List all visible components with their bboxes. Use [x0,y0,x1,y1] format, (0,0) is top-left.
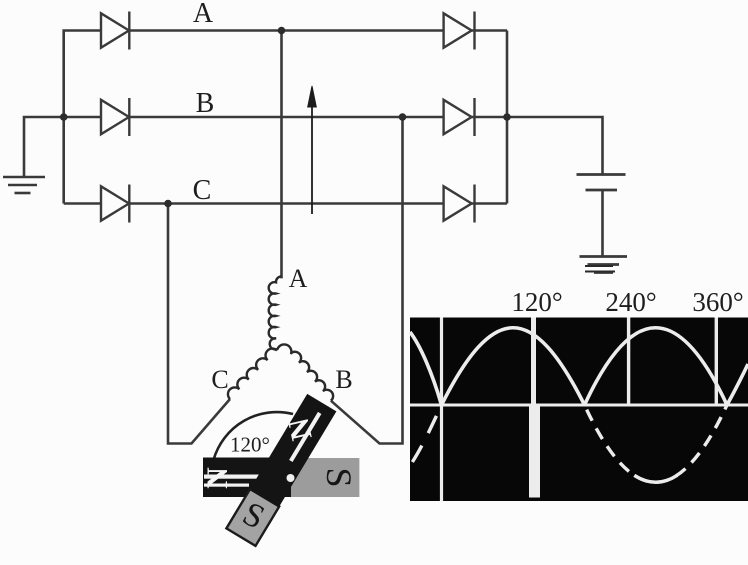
scope grid vertical 360 deg [715,318,718,407]
wire ground stub left [24,117,64,176]
svg-text:B: B [196,88,215,119]
svg-text:B: B [335,365,352,394]
wire phase A horizontal [64,31,507,204]
capacitor C1 [577,175,626,191]
svg-text:360°: 360° [692,287,743,317]
oscilloscope screen [410,318,748,502]
scope grid vertical 240 deg [627,318,630,407]
svg-text:C: C [193,175,212,206]
diode D1 phase A left [101,12,129,50]
wire phase B horizontal [64,116,507,119]
diode D4 phase A right [444,12,475,50]
scope 120 deg thick bar lower [529,405,540,498]
waveform rising tail at right [727,364,748,405]
waveform dashed fragment lower left [394,405,442,482]
wire A drop to winding [280,31,283,279]
wire from bridge output to capacitor [507,117,603,174]
magnet horizontal S pole (gray) [285,458,359,497]
rotation arc 120 degrees [214,412,293,460]
junction node dot phase B tap [399,113,407,121]
junction node dot phase C tap [164,200,172,208]
magnet pivot dot [287,474,295,482]
junction node dot B-left bus [60,113,68,121]
junction node dot bridge output [503,113,511,121]
svg-text:120°: 120° [230,433,270,457]
svg-text:N: N [201,467,234,489]
winding C coil [228,349,277,399]
magnet diagonal rotated 120deg: S pole gray and N pole black [220,390,336,546]
svg-text:S: S [319,467,359,487]
waveform solid bottom of negative half-wave [634,475,677,482]
diode D5 phase B right [444,98,475,136]
junction node dot phase A tap [278,27,286,35]
waveform dashed negative half-wave [585,405,728,482]
artifact equals mark above 240 [585,266,615,272]
svg-text:C: C [211,365,228,394]
waveform descending tail at left [410,332,442,405]
magnet horizontal N pole (black) [201,458,291,498]
ground GND2 right [580,257,628,273]
wire capacitor to right ground [601,190,604,256]
scope grid vertical 0 deg [440,318,443,502]
winding A coil [269,276,292,354]
waveform arch phase 2 [585,328,728,405]
scope horizontal axis [410,404,748,407]
winding B coil [291,352,333,401]
right bus wire [506,31,509,204]
svg-text:240°: 240° [605,287,656,317]
diode D6 phase C right [444,185,475,223]
wire phase C horizontal [64,202,507,205]
svg-text:A: A [193,0,214,29]
wire B drop to winding [331,117,403,444]
current arrow [308,86,317,214]
svg-text:120°: 120° [511,287,562,317]
diode D3 phase C left [101,185,129,223]
wire C drop to winding [168,204,230,444]
waveform arch phase 1 [442,328,585,405]
scope grid vertical 120 deg upper [531,318,536,406]
svg-text:A: A [289,264,308,293]
ground GND1 left [3,177,45,193]
diode D2 phase B left [101,98,129,136]
